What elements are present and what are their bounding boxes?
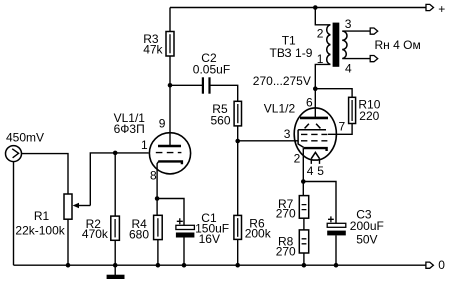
pin label 3 grid	[284, 127, 291, 141]
svg-text:6Ф3П: 6Ф3П	[114, 122, 145, 136]
wire C3 bottom lead	[335, 235, 337, 265]
svg-text:220: 220	[359, 109, 379, 123]
wiper arrow R1	[73, 203, 91, 208]
capacitor C2	[203, 77, 210, 93]
label T1 ТВЗ 1-9	[270, 34, 313, 60]
svg-text:470k: 470k	[82, 227, 109, 241]
label C2 0.05uF	[193, 51, 230, 77]
svg-text:0: 0	[438, 258, 445, 272]
transformer T1 secondary winding	[342, 31, 347, 58]
label R8 270	[276, 235, 296, 259]
node R4 to ground rail	[156, 263, 161, 268]
triode grid dashed	[156, 152, 182, 154]
pin label 1 primary bottom	[317, 52, 324, 66]
label C1 150uF 16V	[195, 211, 229, 246]
ground	[107, 265, 125, 279]
resistor R8	[299, 230, 308, 253]
svg-text:680: 680	[129, 228, 149, 242]
label R6 200k	[245, 216, 272, 240]
pentode anode plate	[300, 117, 328, 120]
label R5 560	[211, 102, 231, 128]
pentode control grid dashed	[301, 140, 327, 142]
node R2 to ground rail	[113, 263, 118, 268]
node junction R3/C2/anode	[168, 83, 173, 88]
resistor R4	[154, 215, 163, 239]
wire R4 bottom lead	[157, 240, 159, 266]
svg-text:5: 5	[317, 164, 324, 178]
node R8 to ground rail	[302, 263, 307, 268]
svg-text:3: 3	[345, 17, 352, 31]
wire cathode to C1	[157, 199, 184, 226]
wire R6 top lead	[237, 141, 239, 215]
node junction R5/R6/grid	[235, 139, 240, 144]
resistor R6	[234, 215, 242, 239]
tube VL1/2 pentode envelope	[294, 108, 336, 160]
pentode grid wire inside	[294, 140, 298, 142]
pin label 8	[150, 169, 157, 183]
resistor R7	[299, 196, 308, 219]
svg-text:3: 3	[284, 127, 291, 141]
wire C2 right lead	[210, 85, 237, 101]
svg-text:+: +	[438, 2, 445, 16]
capacitor C1 electrolytic	[176, 218, 195, 237]
svg-text:270: 270	[276, 244, 296, 258]
pentode anode lead inside	[314, 108, 316, 118]
svg-text:22k-100k: 22k-100k	[15, 224, 65, 238]
resistor R2	[111, 216, 120, 240]
node C1 to ground rail	[182, 263, 187, 268]
label R1 22k-100k	[15, 209, 65, 238]
terminal secondary bottom	[370, 56, 378, 62]
label VL1/2	[264, 102, 296, 116]
svg-text:50V: 50V	[356, 232, 377, 246]
svg-text:270...275V: 270...275V	[253, 74, 311, 88]
wire R10 bottom to screen grid pin 7	[328, 124, 352, 135]
transformer T1 primary winding	[327, 25, 331, 65]
wire pentode anode pin 6	[314, 89, 316, 118]
label VL1/1 6Ф3П	[114, 111, 146, 136]
wire source to ground rail	[13, 162, 15, 266]
node C3 to ground rail	[334, 263, 339, 268]
label R10 220	[358, 98, 380, 123]
label R4 680	[129, 217, 149, 242]
wire pentode grid pin 3	[238, 140, 298, 142]
svg-text:2: 2	[317, 27, 324, 41]
svg-text:1: 1	[141, 138, 148, 152]
potentiometer R1	[64, 194, 72, 219]
label supply 270...275V	[253, 74, 311, 88]
pentode heater	[311, 152, 319, 164]
terminal secondary top	[370, 28, 378, 34]
pin label 7	[339, 120, 346, 134]
svg-text:0.05uF: 0.05uF	[193, 62, 230, 76]
wire triode anode pin 9	[169, 85, 171, 146]
wire secondary top lead	[343, 30, 370, 32]
wire R8 bottom lead	[303, 253, 305, 265]
resistor R5	[234, 101, 241, 126]
transformer T1 core	[333, 23, 340, 67]
wire pentode cathode pin 2	[302, 148, 304, 181]
node junction anode/R10	[313, 86, 318, 91]
pentode cathode	[304, 148, 327, 151]
resistor R3	[166, 32, 174, 57]
svg-text:7: 7	[339, 120, 346, 134]
wire R10 top lead	[315, 89, 352, 98]
wire R7 to R8	[303, 218, 305, 230]
wire R5 bottom lead	[237, 126, 239, 141]
svg-text:270: 270	[276, 206, 296, 220]
svg-text:1: 1	[317, 52, 324, 66]
label R7 270	[276, 197, 296, 221]
wire secondary bottom lead	[343, 58, 370, 60]
wire cathode to C3	[303, 182, 336, 224]
pin label 1	[141, 138, 148, 152]
label R2 470k	[82, 217, 109, 241]
wire top supply rail	[170, 7, 426, 9]
wire R2 top lead	[114, 153, 116, 216]
label Rн 4 Ом	[375, 38, 421, 52]
wire C1 bottom lead	[183, 238, 185, 266]
svg-text:8: 8	[150, 169, 157, 183]
svg-text:16V: 16V	[199, 232, 220, 246]
resistor R10	[349, 97, 356, 123]
svg-text:47k: 47k	[143, 43, 163, 57]
wire wiper to triode grid	[90, 153, 148, 206]
label plus	[438, 2, 445, 16]
svg-text:6: 6	[306, 95, 313, 109]
label zero	[438, 258, 445, 272]
svg-text:450mV: 450mV	[6, 131, 44, 145]
label input 450mV	[6, 131, 44, 145]
svg-text:9: 9	[159, 116, 166, 130]
wire R3 bottom lead	[169, 56, 171, 85]
terminal zero output	[426, 262, 434, 268]
wire C2 left lead	[170, 84, 202, 86]
svg-text:4: 4	[345, 61, 352, 75]
svg-text:VL1/2: VL1/2	[264, 102, 296, 116]
svg-text:200uF: 200uF	[350, 219, 384, 233]
pin label 9	[159, 116, 166, 130]
pin label 3 secondary top	[345, 17, 352, 31]
wire source to R1	[22, 154, 69, 194]
svg-text:200k: 200k	[245, 226, 272, 240]
svg-text:ТВЗ 1-9: ТВЗ 1-9	[270, 46, 313, 60]
triode anode lead inside	[169, 133, 171, 146]
node R1 to ground rail	[66, 263, 71, 268]
svg-text:R1: R1	[34, 209, 50, 223]
pentode screen grid dashed	[301, 133, 327, 135]
wire R7 top lead	[302, 182, 304, 196]
svg-text:560: 560	[211, 114, 231, 128]
pin label 2 cathode	[294, 151, 301, 165]
pin label 6	[306, 95, 313, 109]
svg-text:Rн 4 Ом: Rн 4 Ом	[375, 38, 421, 52]
wire transformer primary bottom lead	[315, 64, 330, 88]
pin label 4 heater	[307, 164, 314, 178]
label C3 200uF 50V	[350, 208, 384, 247]
wire R4 top lead	[156, 199, 158, 216]
terminal plus output	[426, 4, 434, 10]
svg-text:2: 2	[294, 151, 301, 165]
pin label 2 primary top	[317, 27, 324, 41]
label R3 47k	[143, 32, 163, 57]
capacitor C3 electrolytic	[327, 216, 346, 235]
wire R1 bottom lead	[67, 219, 69, 265]
signal source input	[6, 146, 22, 162]
node top rail transformer tap	[313, 5, 318, 10]
triode anode plate	[158, 145, 181, 148]
node junction R2 top	[113, 151, 118, 156]
wire R2 bottom lead	[114, 240, 116, 265]
node cathode junction	[155, 196, 160, 201]
triode cathode	[157, 161, 182, 198]
pin label 4 secondary bottom	[345, 61, 352, 75]
tube VL1/1 triode envelope	[149, 133, 190, 174]
pin label 5 heater	[317, 164, 324, 178]
beam plates	[298, 124, 326, 148]
wire R3 top lead	[169, 8, 171, 32]
svg-text:4: 4	[307, 164, 314, 178]
wire transformer primary top lead	[315, 8, 330, 25]
node cathode junction pentode	[301, 179, 306, 184]
wire bottom ground rail	[14, 264, 426, 266]
wire R6 bottom lead	[237, 239, 239, 265]
node R6 to ground rail	[235, 263, 240, 268]
